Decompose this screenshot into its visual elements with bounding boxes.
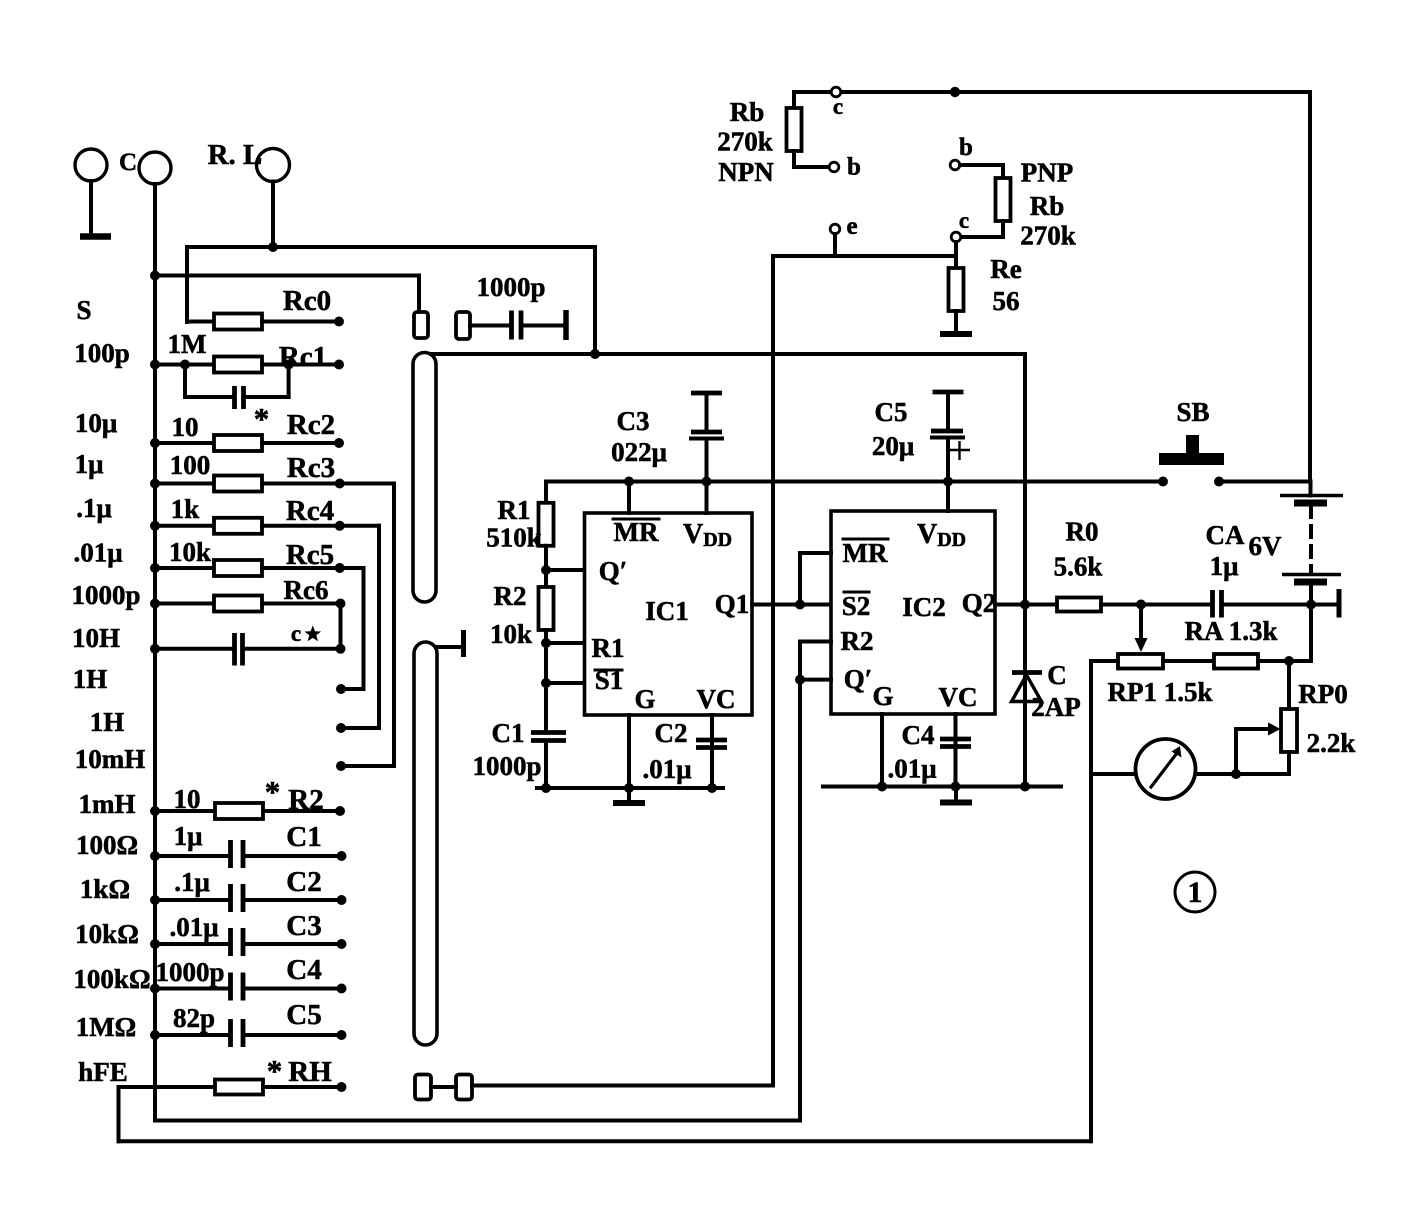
svg-text:1000p: 1000p [472, 751, 541, 781]
svg-text:b: b [847, 154, 861, 181]
svg-text:NPN: NPN [718, 157, 774, 187]
svg-text:10μ: 10μ [75, 408, 117, 438]
svg-text:RH: RH [288, 1056, 332, 1088]
svg-text:c: c [291, 621, 301, 646]
svg-text:MR: MR [843, 538, 888, 568]
svg-text:PNP: PNP [1021, 158, 1073, 188]
svg-text:Rb: Rb [730, 97, 765, 127]
svg-text:10mH: 10mH [75, 744, 146, 774]
svg-text:C1: C1 [492, 718, 525, 748]
svg-text:IC2: IC2 [902, 592, 946, 622]
svg-text:C2: C2 [655, 718, 688, 748]
svg-text:C4: C4 [902, 720, 935, 750]
svg-text:*: * [267, 1053, 283, 1088]
svg-text:*: * [265, 774, 281, 809]
svg-text:.01μ: .01μ [642, 754, 691, 784]
svg-text:100Ω: 100Ω [76, 830, 138, 860]
svg-text:b: b [959, 134, 973, 161]
svg-text:10kΩ: 10kΩ [75, 919, 139, 949]
svg-text:10k: 10k [490, 619, 532, 649]
svg-text:c: c [959, 208, 969, 233]
svg-text:1000p: 1000p [71, 580, 140, 610]
svg-text:1μ: 1μ [75, 449, 104, 479]
svg-text:RP1 1.5k: RP1 1.5k [1107, 677, 1212, 707]
svg-text:SB: SB [1176, 397, 1209, 427]
svg-text:2AP: 2AP [1031, 692, 1081, 722]
svg-text:R0: R0 [1066, 517, 1099, 547]
svg-text:*: * [254, 401, 270, 436]
svg-text:Rc1: Rc1 [279, 341, 327, 373]
svg-text:Q1: Q1 [715, 589, 750, 619]
svg-text:1: 1 [1188, 876, 1203, 909]
svg-text:C: C [1047, 660, 1067, 690]
svg-text:G: G [634, 684, 655, 714]
svg-text:Q′: Q′ [844, 664, 873, 694]
svg-text:1000p: 1000p [155, 957, 224, 987]
svg-text:C3: C3 [286, 910, 321, 942]
svg-text:R1: R1 [498, 495, 531, 525]
svg-text:C5: C5 [875, 397, 908, 427]
svg-text:S2: S2 [842, 591, 871, 621]
svg-text:.01μ: .01μ [73, 538, 122, 568]
svg-text:6V: 6V [1249, 531, 1283, 561]
svg-text:Rc3: Rc3 [287, 452, 335, 484]
svg-text:270k: 270k [1020, 221, 1076, 251]
svg-text:C2: C2 [286, 866, 321, 898]
svg-text:Q2: Q2 [962, 588, 997, 618]
svg-text:1H: 1H [90, 707, 125, 737]
svg-text:S: S [76, 295, 91, 325]
svg-text:10: 10 [172, 412, 199, 442]
svg-text:C1: C1 [286, 821, 321, 853]
svg-text:1M: 1M [168, 329, 207, 359]
svg-text:100: 100 [170, 450, 211, 480]
svg-text:Rc0: Rc0 [283, 285, 331, 317]
svg-text:IC1: IC1 [645, 596, 689, 626]
svg-text:Rc5: Rc5 [286, 539, 334, 571]
svg-text:VC: VC [697, 684, 736, 714]
svg-text:CA: CA [1206, 520, 1245, 550]
svg-text:C: C [119, 149, 137, 176]
svg-text:RP0: RP0 [1298, 679, 1348, 709]
svg-text:1kΩ: 1kΩ [80, 874, 130, 904]
svg-text:Q′: Q′ [599, 556, 628, 586]
svg-text:G: G [872, 681, 893, 711]
svg-text:MR: MR [614, 517, 659, 547]
svg-text:R. L: R. L [208, 139, 263, 171]
svg-text:VC: VC [939, 682, 978, 712]
svg-text:.01μ: .01μ [887, 754, 936, 784]
svg-text:.1μ: .1μ [76, 493, 112, 523]
svg-text:2.2k: 2.2k [1307, 728, 1356, 758]
svg-text:022μ: 022μ [611, 437, 667, 467]
svg-text:1H: 1H [73, 664, 108, 694]
svg-text:270k: 270k [717, 127, 773, 157]
svg-text:82p: 82p [173, 1003, 215, 1033]
svg-text:R2: R2 [494, 581, 527, 611]
svg-text:1MΩ: 1MΩ [76, 1012, 137, 1042]
svg-text:10: 10 [174, 784, 201, 814]
svg-text:R2: R2 [841, 626, 874, 656]
svg-text:510k: 510k [486, 523, 542, 553]
svg-text:.01μ: .01μ [169, 912, 218, 942]
svg-text:1μ: 1μ [174, 821, 203, 851]
svg-text:1k: 1k [171, 494, 200, 524]
svg-text:c: c [833, 94, 843, 119]
svg-text:Rc2: Rc2 [287, 409, 335, 441]
svg-text:e: e [846, 213, 857, 240]
svg-text:10k: 10k [169, 537, 211, 567]
svg-text:5.6k: 5.6k [1054, 552, 1103, 582]
svg-text:.1μ: .1μ [174, 867, 210, 897]
svg-text:R2: R2 [288, 784, 323, 816]
svg-text:Rc4: Rc4 [286, 495, 334, 527]
svg-text:R1: R1 [592, 633, 625, 663]
svg-text:RA 1.3k: RA 1.3k [1184, 616, 1277, 646]
svg-text:Rc6: Rc6 [284, 575, 329, 605]
svg-text:56: 56 [993, 286, 1020, 316]
svg-text:10H: 10H [72, 623, 120, 653]
svg-text:1mH: 1mH [79, 789, 136, 819]
svg-text:Re: Re [990, 254, 1021, 284]
svg-text:100kΩ: 100kΩ [73, 964, 150, 994]
svg-text:20μ: 20μ [872, 431, 914, 461]
svg-text:C3: C3 [617, 406, 650, 436]
svg-text:1μ: 1μ [1210, 551, 1239, 581]
svg-text:C5: C5 [286, 999, 321, 1031]
svg-text:Rb: Rb [1030, 191, 1065, 221]
svg-text:hFE: hFE [78, 1057, 128, 1087]
svg-text:C4: C4 [286, 954, 321, 986]
svg-text:1000p: 1000p [476, 272, 545, 302]
svg-text:100p: 100p [74, 338, 130, 368]
